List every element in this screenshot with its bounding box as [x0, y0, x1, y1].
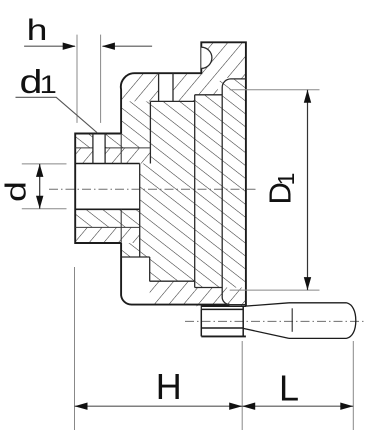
hole top line in rim [201, 305, 246, 307]
body top-left edge with fillet [121, 42, 246, 306]
handle grip bottom [289, 337, 347, 339]
handle neck taper bottom [243, 328, 289, 338]
H arrowheads [75, 403, 88, 410]
bore end vertical [139, 164, 141, 258]
hatch hub bottom lower band [75, 227, 140, 243]
hub band divider top [75, 147, 150, 149]
web left edge low [149, 257, 151, 281]
svg-text:1: 1 [273, 173, 299, 186]
hatch top band and rim top section [173, 42, 246, 101]
band bottom line [150, 100, 194, 102]
hatch web bottom step band [150, 281, 195, 305]
hatch flange right column [218, 78, 246, 305]
handle dome end [347, 303, 356, 339]
hatch web block [140, 101, 195, 281]
hatch hub bottom upper band [75, 209, 140, 227]
d1 label [20, 63, 57, 100]
hatch hub top lower band [75, 148, 150, 164]
web left edge [149, 101, 151, 163]
hub outline [75, 134, 121, 244]
h arrowheads [63, 43, 76, 50]
body bottom-left edge with fillet [121, 243, 229, 305]
svg-text:1: 1 [40, 70, 57, 98]
d extension lines [22, 163, 67, 165]
handle neck taper top [243, 303, 289, 307]
L extension line right [352, 341, 354, 430]
hub band divider bottom [75, 226, 140, 228]
hatch body top-left band [121, 73, 159, 101]
hub-body joint vertical top [120, 134, 122, 164]
rim inner surface line [195, 94, 223, 96]
d1 hole slot left [92, 134, 94, 164]
svg-text:d: d [0, 181, 32, 202]
d dimension line [39, 164, 41, 209]
D1 extension lines [230, 89, 320, 91]
H dimension line [75, 405, 243, 407]
hatch rim mid column [195, 95, 223, 288]
strip vertical left [158, 73, 160, 101]
d1 leader [16, 97, 98, 133]
hub-body joint vertical bottom [120, 209, 122, 243]
main axis centerline [49, 188, 256, 190]
D1 dimension line [307, 90, 309, 290]
strip vertical right [172, 73, 174, 101]
h extension lines [76, 35, 78, 123]
rim notch semicircle [201, 47, 212, 68]
L dimension line [242, 405, 353, 407]
handle axis centerline [185, 320, 367, 322]
web step line low [121, 256, 150, 258]
d1 hole slot right [104, 134, 106, 164]
web bottom step [150, 281, 223, 309]
hatch foot box below hub [121, 243, 140, 257]
bore bottom line [75, 208, 140, 210]
rim bottom line [201, 335, 246, 337]
flange ledge top [222, 79, 246, 305]
hatch rim bottom sliver [195, 288, 246, 307]
D1 label (rotated) [263, 173, 300, 205]
handle grip tick [291, 308, 293, 332]
bore top line [75, 163, 140, 165]
web right edge [194, 95, 196, 288]
L arrowheads [242, 403, 255, 410]
hatch body foot region [121, 101, 150, 133]
svg-text:L: L [279, 367, 299, 408]
H/L shared extension line [241, 341, 243, 430]
handle boss [201, 306, 243, 336]
d label (rotated) [0, 181, 32, 202]
h dimension lines [24, 45, 75, 47]
handle grip top [289, 302, 347, 304]
hatch hub top upper band [75, 134, 150, 148]
svg-text:H: H [156, 366, 182, 407]
H extension line left [74, 267, 76, 430]
svg-text:h: h [27, 13, 48, 47]
D1 arrowheads [304, 90, 311, 103]
d arrowheads [36, 164, 43, 177]
